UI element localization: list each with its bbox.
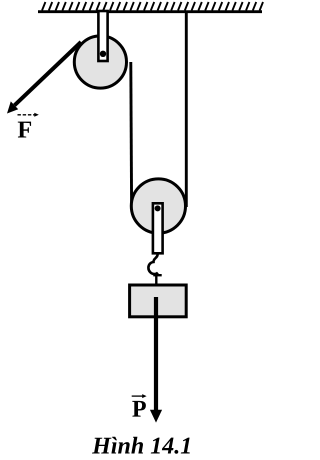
movable pulley wheel (131, 179, 185, 233)
vector arrow over P label (132, 394, 147, 398)
fixed pulley bracket (98, 11, 107, 61)
hook below movable pulley (148, 255, 158, 275)
force P line (154, 297, 158, 411)
movable pulley axle dot (155, 205, 161, 211)
block hanger pin (155, 274, 157, 286)
label P (132, 401, 146, 417)
wire rope from fixed pulley down to movable pulley (129, 62, 133, 207)
caption Hinh 14.1 (92, 437, 190, 454)
fixed pulley axle dot (100, 51, 106, 57)
block hanger pin crossbar (153, 274, 161, 276)
force P arrowhead (150, 410, 162, 423)
vector arrow over F label (18, 113, 39, 117)
movable pulley bracket (153, 203, 163, 253)
label F (18, 122, 31, 138)
ceiling hatching (42, 2, 263, 11)
wire rope from ceiling down to movable pulley right side (185, 13, 188, 207)
force F arrowhead (7, 101, 18, 113)
force F rope segment (tangent from fixed pulley, down-left) (15, 42, 82, 105)
fixed pulley wheel (74, 36, 126, 88)
ceiling line (38, 10, 262, 13)
weight block (130, 285, 187, 317)
